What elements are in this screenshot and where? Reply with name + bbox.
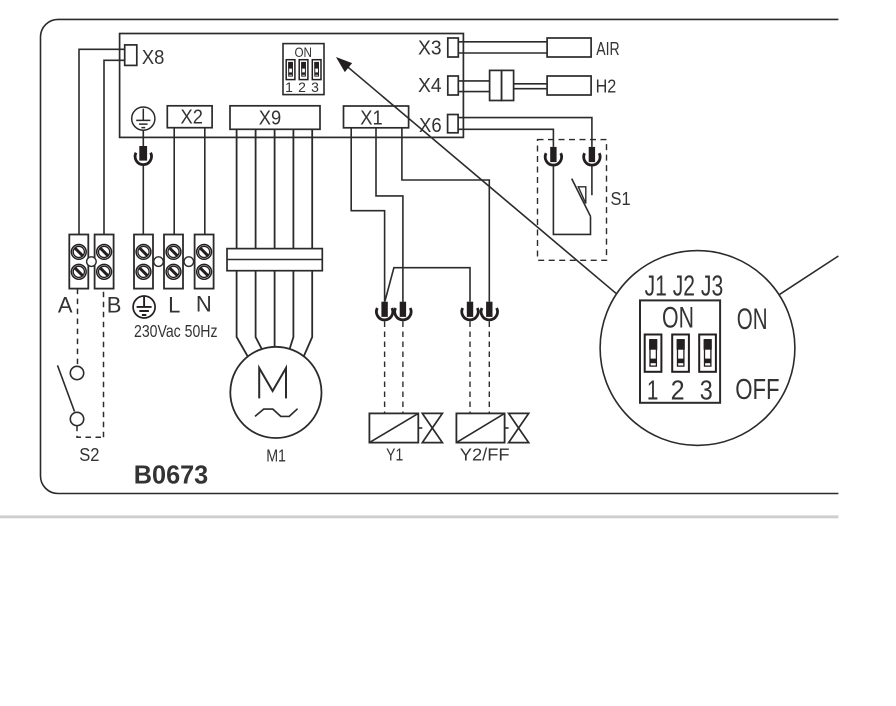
svg-text:2: 2	[671, 375, 685, 406]
svg-text:2: 2	[298, 79, 306, 95]
svg-text:1: 1	[647, 375, 659, 406]
svg-text:Y1: Y1	[386, 445, 403, 465]
svg-text:H2: H2	[596, 77, 617, 97]
svg-text:S1: S1	[611, 189, 631, 209]
wire X1 pin3 to plug	[402, 128, 489, 302]
inline connector pair	[490, 70, 514, 100]
separator line	[0, 515, 838, 518]
wires X9 to bundle	[237, 129, 313, 248]
ground symbol on board	[132, 107, 155, 130]
wire X8 to terminal B	[104, 60, 125, 234]
screw L bottom	[166, 264, 181, 279]
wire X3 to AIR	[458, 42, 547, 53]
svg-text:M1: M1	[266, 446, 286, 466]
valve plug 4	[481, 302, 497, 414]
callout line right	[779, 256, 838, 295]
svg-text:3: 3	[311, 79, 319, 95]
magnifier detail circle	[600, 251, 795, 446]
connector X1	[344, 106, 409, 130]
wire X1 pin1 to plug	[351, 128, 384, 302]
svg-text:J1 J2 J3: J1 J2 J3	[645, 271, 724, 303]
svg-text:L: L	[168, 292, 180, 317]
svg-text:ON: ON	[294, 44, 312, 60]
wire X2 to N	[204, 128, 206, 235]
svg-text:B0673: B0673	[134, 459, 208, 489]
sensor H2	[547, 76, 616, 97]
svg-text:1: 1	[285, 79, 293, 95]
svg-text:230Vac 50Hz: 230Vac 50Hz	[134, 321, 218, 341]
switch S1	[538, 140, 631, 261]
screw A top	[71, 245, 86, 260]
connector X4	[418, 75, 458, 97]
solenoid valve Y1	[369, 413, 442, 464]
connector X8	[125, 45, 165, 69]
wires bundle to motor	[237, 271, 313, 356]
wire common Y1-Y2	[385, 268, 470, 302]
wire earth plug to terminal	[142, 166, 144, 235]
svg-text:X2: X2	[181, 107, 203, 129]
arrow callout to DIP switch	[337, 58, 616, 294]
screw N top	[197, 245, 212, 260]
valve plug 1	[376, 302, 392, 414]
svg-text:X1: X1	[360, 108, 382, 130]
valve plug 2	[395, 302, 411, 414]
svg-text:X8: X8	[142, 46, 165, 69]
valve plug 3	[462, 302, 478, 414]
screw A bottom	[71, 264, 86, 279]
control board	[120, 34, 464, 138]
connector X6	[419, 115, 458, 138]
svg-text:S2: S2	[79, 445, 99, 465]
solenoid valve Y2/FF	[456, 413, 528, 464]
sensor AIR	[547, 38, 620, 59]
motor M1	[230, 347, 321, 466]
DIP switch detail	[640, 300, 720, 405]
connector X9	[230, 106, 320, 130]
wire X6 to S1 left plug	[458, 129, 553, 147]
terminal block earth/L/N	[134, 235, 214, 289]
screw B top	[97, 245, 112, 260]
svg-text:X4: X4	[418, 75, 442, 97]
connector X2	[167, 106, 212, 129]
svg-text:3: 3	[700, 375, 713, 406]
wire inline connector to H2	[514, 84, 547, 89]
screw N bottom	[197, 264, 212, 279]
svg-text:ON: ON	[737, 303, 768, 336]
connector X3	[418, 38, 458, 60]
svg-text:ON: ON	[662, 301, 694, 334]
svg-text:OFF: OFF	[735, 374, 779, 406]
cable bundle bar	[227, 249, 322, 271]
terminal block A/B	[69, 235, 113, 289]
wire X6 to S1 right plug	[458, 118, 592, 147]
svg-text:Y2/FF: Y2/FF	[460, 445, 510, 465]
wire ground circle to plug	[142, 130, 144, 146]
screw L top	[166, 245, 181, 260]
svg-text:X3: X3	[418, 38, 442, 60]
switch S2	[58, 289, 104, 465]
svg-text:A: A	[58, 292, 73, 317]
svg-text:X9: X9	[259, 108, 281, 130]
wire X1 pin2 to plug	[376, 128, 403, 302]
screw E bottom	[136, 264, 151, 279]
DIP switch on board	[283, 44, 324, 95]
svg-text:N: N	[196, 292, 212, 317]
earth symbol below terminal	[133, 296, 155, 318]
wire X8 to terminal A	[79, 49, 125, 234]
earth plug	[135, 146, 151, 165]
screw E top	[136, 245, 151, 260]
wire X4 to inline connector	[458, 81, 489, 92]
svg-text:AIR: AIR	[596, 39, 619, 59]
svg-text:X6: X6	[419, 115, 442, 137]
screw B bottom	[97, 264, 112, 279]
wire X2 to L	[173, 128, 175, 235]
svg-text:B: B	[107, 292, 122, 317]
